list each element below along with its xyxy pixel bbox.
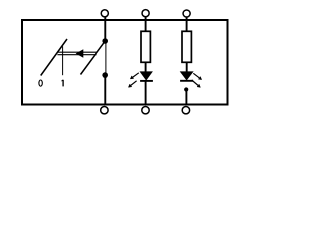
- junction dot lower: [102, 72, 108, 78]
- terminal top 3: [183, 10, 190, 17]
- LED D2 triangle: [181, 72, 193, 80]
- position indicator line: [62, 46, 64, 75]
- junction dot upper: [102, 38, 108, 44]
- mechanical linkage upper line: [57, 51, 96, 53]
- wire LED1 bottom: [145, 81, 147, 105]
- terminal bottom 3: [182, 107, 189, 114]
- terminal top 1: [101, 10, 108, 17]
- terminal bottom 2: [142, 107, 149, 114]
- switch S1 moving contact: [81, 41, 105, 74]
- wire R2 top: [186, 17, 188, 31]
- wire switch top: [104, 17, 106, 41]
- resistor R1: [141, 31, 150, 62]
- wire R1 to LED1: [145, 62, 147, 72]
- LED D1 emission arrow lower: [129, 81, 137, 87]
- node dot LED2 bottom: [184, 87, 188, 91]
- LED D1 emission arrow upper: [131, 73, 139, 79]
- terminal bottom 1: [101, 107, 108, 114]
- LED D2 emission arrow lower: [192, 80, 200, 87]
- mechanical linkage lower line: [57, 54, 96, 56]
- wire switch bottom: [104, 75, 106, 105]
- label 0: [39, 80, 42, 86]
- label 1: [62, 80, 64, 87]
- resistor R2: [182, 31, 191, 62]
- terminal top 2: [142, 10, 149, 17]
- wire switch middle (thin): [105, 41, 107, 75]
- LED D1 triangle: [140, 72, 152, 80]
- symbol outline box: [22, 20, 228, 105]
- actuator lever: [41, 39, 67, 76]
- LED D2 emission arrow upper: [193, 73, 201, 79]
- wire LED2 bottom: [185, 90, 187, 105]
- wire R2 to LED2: [186, 62, 188, 72]
- wire R1 top: [145, 17, 147, 31]
- linkage arrowhead: [76, 49, 84, 58]
- LED D2 cathode bar: [180, 80, 193, 82]
- LED D1 cathode bar: [140, 80, 153, 82]
